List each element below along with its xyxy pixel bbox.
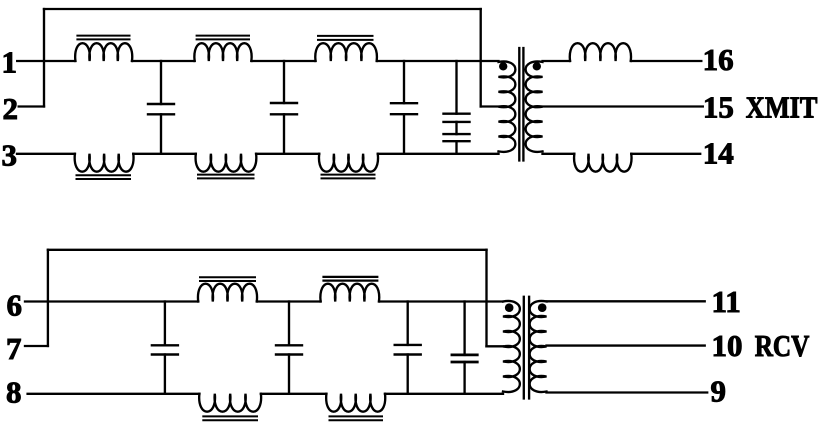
wire jumper right riser bbox=[480, 9, 482, 107]
inductor L10 bbox=[320, 284, 379, 302]
svg-text:RCV: RCV bbox=[755, 328, 810, 363]
wire T2 secondary top to pin 11 bbox=[547, 300, 705, 302]
capacitor C5 (series pair, lower) bbox=[455, 122, 457, 134]
core of L3 (double bar) bbox=[318, 35, 373, 37]
wire L9 to L10 bbox=[257, 300, 321, 302]
wire T2 secondary bottom to pin 9 bbox=[547, 391, 708, 393]
wire jumper top run bbox=[48, 249, 487, 251]
core of L9 (double bar) bbox=[200, 276, 255, 278]
core of L6 (double bar) bbox=[322, 174, 375, 176]
capacitor C7 bbox=[288, 302, 290, 346]
wire L5 to L6 bbox=[256, 153, 319, 155]
svg-text:XMIT: XMIT bbox=[746, 89, 818, 124]
core of L4 (double bar) bbox=[77, 174, 131, 176]
svg-text:15: 15 bbox=[703, 89, 734, 124]
inductor L12 (bottom) bbox=[326, 394, 385, 412]
wire L6 to transformer T1 bbox=[378, 153, 499, 155]
inductor L2 bbox=[194, 43, 251, 61]
svg-text:11: 11 bbox=[712, 284, 741, 319]
transformer T2 primary winding bbox=[503, 301, 520, 392]
svg-text:1: 1 bbox=[2, 44, 18, 79]
svg-text:6: 6 bbox=[7, 287, 23, 322]
core of L10 (double bar) bbox=[324, 276, 378, 278]
inductor L7 bbox=[570, 43, 631, 61]
inductor L6 (bottom) bbox=[319, 154, 378, 172]
wire jumper pin7 riser bbox=[47, 250, 49, 346]
capacitor C4 (series pair, upper) bbox=[455, 61, 457, 114]
capacitor C2 bbox=[283, 61, 285, 103]
wire L7 to pin 16 bbox=[631, 60, 702, 62]
inductor L5 (bottom) bbox=[196, 154, 257, 172]
wire L8 to pin 14 bbox=[631, 153, 700, 155]
wire pin 6 to inductor L9 bbox=[25, 300, 198, 302]
T2 secondary phase dot bbox=[538, 303, 547, 312]
core of L11 (double bar) bbox=[203, 415, 257, 417]
transformer T1 primary winding bbox=[499, 61, 516, 151]
capacitor C6 bbox=[164, 302, 166, 346]
inductor L1 bbox=[75, 43, 132, 61]
svg-text:14: 14 bbox=[703, 135, 734, 170]
inductor L3 bbox=[315, 43, 377, 61]
wire jumper right riser bbox=[485, 250, 487, 346]
T1 secondary phase dot bbox=[533, 62, 541, 70]
wire L11 to L12 bbox=[261, 393, 327, 395]
core of L12 (double bar) bbox=[330, 415, 383, 417]
svg-text:10: 10 bbox=[712, 328, 743, 363]
wire jumper top run bbox=[44, 8, 481, 10]
wire pin 3 to inductor L4 bbox=[17, 153, 75, 155]
wire jumper pin2 riser bbox=[43, 9, 45, 107]
wire L2 to L3 bbox=[251, 60, 315, 62]
inductor L9 bbox=[198, 284, 257, 302]
wire T1 center tap to pin 15 bbox=[543, 105, 703, 107]
wire L1 to L2 bbox=[132, 60, 195, 62]
wire T1 secondary bottom to L8 bbox=[543, 153, 575, 155]
wire L4 to L5 bbox=[133, 153, 196, 155]
wire pin 2 stub bbox=[19, 105, 44, 107]
wire jumper to T1 center tap bbox=[481, 105, 499, 107]
core of L2 (double bar) bbox=[197, 35, 249, 37]
core of L1 (double bar) bbox=[77, 35, 129, 37]
wire jumper to T2 center tap bbox=[487, 345, 504, 347]
svg-text:3: 3 bbox=[2, 137, 18, 172]
inductor L8 bbox=[574, 154, 631, 172]
wire pin 1 to inductor L1 bbox=[17, 60, 75, 62]
inductor L4 (bottom) bbox=[75, 154, 134, 172]
inductor L11 (bottom) bbox=[199, 394, 261, 412]
wire L12 to transformer T2 bbox=[385, 393, 503, 395]
wire T2 center tap to pin 10 bbox=[547, 344, 705, 346]
capacitor C1 bbox=[160, 61, 162, 104]
svg-text:2: 2 bbox=[3, 91, 19, 126]
capacitor C9 bbox=[463, 302, 465, 355]
transformer T1 secondary winding bbox=[526, 61, 543, 151]
svg-text:7: 7 bbox=[6, 331, 22, 366]
wire L3 to transformer T1 bbox=[377, 60, 499, 62]
svg-text:8: 8 bbox=[6, 374, 22, 409]
capacitor C8 bbox=[407, 302, 409, 345]
svg-text:16: 16 bbox=[703, 42, 734, 77]
wire L10 to transformer T2 bbox=[379, 300, 503, 302]
T2 primary phase dot bbox=[505, 303, 514, 312]
T1 primary phase dot bbox=[499, 62, 507, 70]
svg-text:9: 9 bbox=[711, 374, 727, 409]
wire pin 8 to inductor L11 bbox=[28, 393, 200, 395]
core of L5 (double bar) bbox=[198, 174, 254, 176]
wire pin 7 stub bbox=[25, 345, 48, 347]
transformer T2 core (double line) bbox=[523, 297, 525, 399]
wire T1 secondary top to L7 bbox=[543, 60, 571, 62]
transformer T1 core (double line) bbox=[518, 48, 520, 161]
capacitor C3 bbox=[403, 61, 405, 103]
transformer T2 secondary winding bbox=[530, 301, 547, 392]
